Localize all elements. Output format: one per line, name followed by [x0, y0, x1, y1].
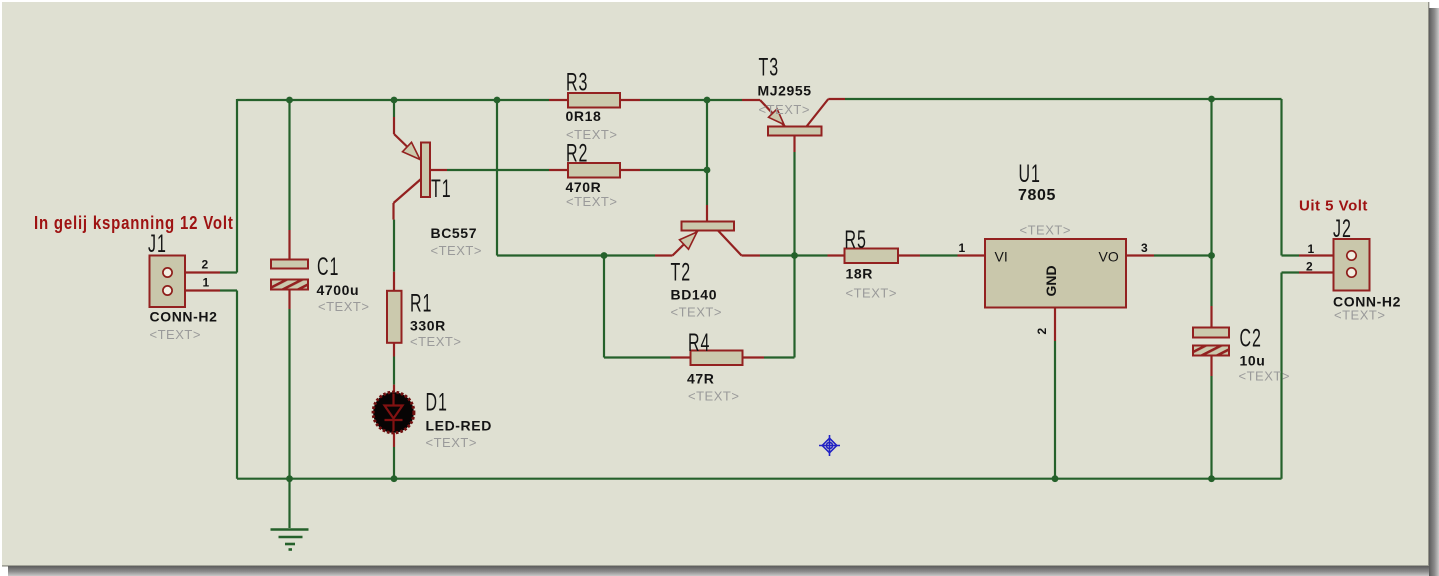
transistor T1 emitter arrow	[403, 142, 421, 159]
svg-text:VI: VI	[995, 249, 1008, 265]
transistor T1 base bar	[421, 143, 430, 198]
transistor T2 base pin	[706, 205, 708, 222]
wire output node down to C2	[1210, 256, 1212, 307]
capacitor C2 top pin stub	[1210, 306, 1212, 328]
svg-text:<TEXT>: <TEXT>	[426, 435, 477, 450]
svg-text:0R18: 0R18	[566, 108, 602, 124]
transistor T2 emitter diagonal line	[673, 231, 699, 256]
regulator U1 pin 1 stub	[958, 254, 986, 256]
svg-text:<TEXT>: <TEXT>	[846, 286, 897, 301]
wire T2 collector node short	[760, 254, 795, 256]
wire T1 emitter branch from top rail	[393, 100, 395, 117]
wire top rail left (12V input net)	[237, 99, 549, 101]
svg-text:1: 1	[1308, 242, 1315, 256]
sheet edge right	[1428, 2, 1429, 566]
drop shadow right	[1429, 8, 1439, 576]
svg-text:<TEXT>: <TEXT>	[759, 102, 810, 117]
svg-text:<TEXT>: <TEXT>	[688, 389, 739, 404]
resistor R1 body	[387, 291, 402, 343]
svg-text:<TEXT>: <TEXT>	[1239, 369, 1290, 384]
transistor T2 emitter pin horizontal	[655, 254, 673, 256]
resistor R3 body	[568, 93, 620, 108]
svg-text:2: 2	[1306, 260, 1313, 274]
svg-text:Uit 5 Volt: Uit 5 Volt	[1299, 198, 1368, 215]
regulator U1 pin 2 stub	[1054, 308, 1056, 342]
wire R5 to U1 pin 1	[920, 254, 958, 256]
resistor R1 bottom pin stub	[393, 343, 395, 357]
resistor R3 right pin stub	[620, 99, 640, 101]
transistor T3 emitter arrow	[769, 109, 785, 125]
wire J2 pin 2 horizontal	[1282, 271, 1300, 273]
svg-text:MJ2955: MJ2955	[758, 83, 812, 99]
svg-text:BC557: BC557	[431, 225, 478, 241]
resistor R1 top pin stub	[393, 272, 395, 291]
svg-text:R4: R4	[688, 330, 710, 357]
led D1 top pin stub	[393, 385, 395, 392]
svg-text:C1: C1	[317, 254, 339, 281]
svg-text:<TEXT>: <TEXT>	[410, 334, 461, 349]
led D1 bottom pin stub	[393, 433, 395, 447]
svg-text:T3: T3	[759, 54, 780, 81]
wire T1 collector to R1	[393, 220, 395, 272]
connector J2 body	[1334, 239, 1370, 291]
svg-text:R5: R5	[845, 227, 867, 254]
transistor T2 collector pin	[742, 254, 761, 256]
svg-text:T1: T1	[431, 176, 452, 203]
node junction top rail / T1	[391, 97, 398, 104]
wire T3 base vertical	[793, 152, 795, 256]
led D1 body circle	[373, 392, 414, 433]
wire J2 pin 2 vertical down to ground rail	[1280, 273, 1282, 479]
resistor R5 body	[845, 249, 899, 264]
svg-text:1: 1	[959, 241, 966, 255]
node junction ground rail / U1 pin2	[1052, 475, 1059, 482]
svg-text:<TEXT>: <TEXT>	[566, 194, 617, 209]
svg-text:R3: R3	[566, 69, 588, 96]
node junction ground rail / ground symbol	[286, 475, 293, 482]
svg-text:470R: 470R	[566, 179, 602, 195]
svg-text:GND: GND	[1043, 265, 1059, 296]
node junction top rail / T3 emitter	[704, 97, 711, 104]
wire C1 branch vertical lower	[288, 309, 290, 479]
regulator U1 body	[985, 239, 1126, 308]
transistor T3 collector pin	[828, 98, 845, 100]
wire vertical x=707 top rail to R2 row	[706, 100, 708, 170]
wire R1 to D1	[393, 357, 395, 385]
wire horizontal to T2 emitter node	[497, 254, 655, 256]
resistor R4 right pin stub	[743, 356, 765, 358]
svg-text:3: 3	[1141, 241, 1148, 255]
wire C2 branch top rail down to output node	[1210, 99, 1212, 256]
sheet edge bottom	[2, 565, 1429, 566]
connector J2 pin stubs	[1299, 254, 1352, 256]
transistor T1 collector diagonal	[394, 179, 422, 203]
svg-text:18R: 18R	[846, 266, 873, 282]
node junction T3 base / T2 collector / R5 / R4	[791, 252, 798, 259]
svg-text:R1: R1	[410, 290, 432, 317]
svg-text:10u: 10u	[1240, 353, 1266, 369]
wire J2 pin 1 horizontal	[1282, 254, 1300, 256]
node junction ground rail / D1	[391, 475, 398, 482]
wire R4 right to corner	[764, 356, 795, 358]
wire C2 bottom to ground rail	[1210, 376, 1212, 479]
svg-text:4700u: 4700u	[317, 282, 360, 298]
svg-text:1: 1	[203, 276, 210, 290]
wire top rail middle	[640, 99, 742, 101]
svg-text:U1: U1	[1019, 161, 1041, 188]
resistor R5 left pin stub	[828, 254, 845, 256]
transistor T2 base bar	[682, 222, 735, 231]
transistor T3 base bar	[768, 127, 822, 136]
node junction R2 / T2 base	[704, 167, 711, 174]
node junction T2 emitter / R4	[601, 252, 608, 259]
wire vertical branch at x=497 from top rail	[496, 100, 498, 256]
svg-text:2: 2	[202, 258, 209, 272]
wire T2 collector node to R5	[795, 254, 828, 256]
wire U1 pin 2 down to ground rail	[1054, 341, 1056, 479]
svg-text:VO: VO	[1099, 249, 1119, 265]
svg-text:7805: 7805	[1018, 187, 1056, 204]
led D1 diode symbol	[385, 394, 403, 431]
svg-text:CONN-H2: CONN-H2	[150, 309, 218, 325]
svg-text:In gelij kspanning 12 Volt: In gelij kspanning 12 Volt	[34, 212, 234, 233]
resistor R2 left pin stub	[549, 169, 568, 171]
wire bottom ground rail	[237, 478, 1282, 480]
capacitor C1 top plate	[271, 260, 308, 269]
svg-text:BD140: BD140	[671, 287, 718, 303]
svg-text:<TEXT>: <TEXT>	[150, 327, 201, 342]
wire vertical x=707 R2 row to T2 base	[706, 170, 708, 205]
connector J1 pin 2 circle	[163, 268, 172, 277]
connector J2 pin 2 circle	[1347, 268, 1356, 277]
resistor R5 right pin stub	[898, 254, 920, 256]
svg-text:J2: J2	[1333, 216, 1352, 243]
wire left vertical from J1 pin 2 up to top rail	[236, 99, 238, 273]
resistor R2 right pin stub	[620, 169, 640, 171]
svg-text:47R: 47R	[687, 371, 714, 387]
wire T1 base to R2	[447, 169, 549, 171]
connector J1 pin 1 circle	[163, 286, 172, 295]
node junction U1 out / C2	[1208, 252, 1215, 259]
capacitor C1 bottom pin stub	[288, 290, 290, 310]
capacitor C1 top pin stub	[288, 230, 290, 260]
svg-text:<TEXT>: <TEXT>	[671, 305, 722, 320]
resistor R4 left pin stub	[671, 356, 691, 358]
wire ground stub below rail	[288, 479, 290, 528]
svg-text:J1: J1	[148, 231, 167, 258]
wire R2 right to T3 node	[640, 169, 707, 171]
capacitor C2 bottom pin stub	[1210, 356, 1212, 377]
transistor T1 collector pin	[392, 203, 394, 220]
capacitor C2 bottom plate (hatched, polarised)	[1193, 346, 1229, 356]
svg-text:<TEXT>: <TEXT>	[1020, 223, 1071, 238]
wire left vertical from J1 pin 1 down to ground rail	[236, 291, 238, 479]
transistor T1 emitter pin	[393, 117, 395, 134]
svg-text:C2: C2	[1240, 325, 1262, 352]
svg-text:330R: 330R	[410, 318, 446, 334]
wire D1 to ground rail	[393, 447, 395, 479]
transistor T2 collector diagonal	[718, 231, 742, 256]
connector J1 pin stubs	[168, 271, 221, 273]
svg-text:<TEXT>: <TEXT>	[318, 299, 369, 314]
wire R4 row left segment	[604, 356, 671, 358]
node junction top rail / C1	[286, 97, 293, 104]
drop shadow bottom	[8, 566, 1429, 576]
wire corner up to T2 collector node	[793, 256, 795, 358]
capacitor C2 top plate	[1193, 328, 1229, 338]
transistor T3 collector diagonal	[807, 99, 829, 127]
node junction top rail / C2 branch	[1208, 96, 1215, 103]
wire J2 pin 1 vertical from top rail	[1280, 99, 1282, 256]
resistor R2 body	[568, 163, 620, 178]
node junction ground rail / C2	[1208, 475, 1215, 482]
transistor T1 emitter diagonal	[394, 134, 421, 160]
transistor T3 base pin	[793, 136, 795, 153]
wire top rail right (after T3)	[845, 98, 1282, 100]
transistor T3 emitter pin	[742, 99, 760, 101]
wire C1 branch vertical upper	[288, 100, 290, 230]
svg-text:T2: T2	[671, 259, 692, 286]
transistor T2 emitter arrow	[680, 232, 698, 249]
connector J2 pin 1 circle	[1347, 251, 1356, 260]
svg-text:LED-RED: LED-RED	[426, 418, 492, 434]
svg-text:<TEXT>: <TEXT>	[1334, 308, 1385, 323]
regulator U1 pin 3 stub	[1126, 254, 1154, 256]
connector J1 body	[150, 256, 186, 308]
wire U1 pin 3 to C2 node	[1154, 254, 1212, 256]
node junction top rail / x497	[494, 97, 501, 104]
resistor R3 left pin stub	[549, 99, 568, 101]
origin marker (blue)	[819, 435, 840, 456]
wire node at x=604 down to R4 row	[603, 256, 605, 358]
svg-text:R2: R2	[566, 140, 588, 167]
ground symbol	[271, 530, 309, 550]
transistor T1 base pin	[430, 169, 447, 171]
resistor R4 body	[691, 351, 743, 366]
svg-text:<TEXT>: <TEXT>	[431, 243, 482, 258]
svg-text:D1: D1	[426, 389, 448, 416]
capacitor C1 bottom plate (hatched, polarised)	[271, 280, 308, 290]
transistor T3 emitter diagonal	[760, 100, 785, 127]
svg-text:2: 2	[1035, 328, 1049, 335]
